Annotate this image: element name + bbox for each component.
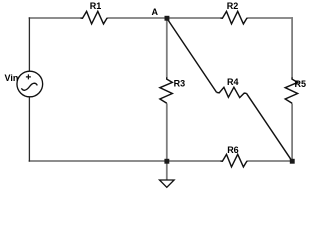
ground xyxy=(160,180,175,187)
wire right vertical upper xyxy=(291,17,293,77)
wire diagonal from node A to R4 xyxy=(167,19,217,93)
resistor R6 xyxy=(220,154,247,167)
svg-text:R4: R4 xyxy=(227,77,239,87)
bottom-right junction dot xyxy=(290,159,295,164)
resistor R1 xyxy=(80,11,107,24)
svg-text:R1: R1 xyxy=(90,1,102,11)
wire right vertical lower xyxy=(291,103,293,161)
source sine wave xyxy=(21,83,37,90)
svg-text:R2: R2 xyxy=(227,1,239,11)
wire top-right segment xyxy=(248,17,293,19)
svg-text:R3: R3 xyxy=(174,78,186,88)
wire ground stem xyxy=(166,161,168,180)
source Vin circle xyxy=(17,71,43,97)
wire left vertical upper (corner to source top) xyxy=(28,17,30,71)
wire diagonal from R4 to bottom-right node xyxy=(246,93,292,161)
svg-text:A: A xyxy=(152,7,159,17)
wire top-middle segment (R1 to R2 through node A) xyxy=(108,17,221,19)
wire top-left segment xyxy=(29,17,81,19)
resistor R2 xyxy=(220,11,247,24)
svg-text:R6: R6 xyxy=(227,145,239,155)
resistor R4 xyxy=(217,87,247,97)
wire bottom-right segment xyxy=(248,160,293,162)
resistor R3 xyxy=(160,77,172,103)
source plus sign xyxy=(26,74,31,79)
svg-text:R5: R5 xyxy=(295,79,307,89)
bottom-center junction dot xyxy=(164,159,169,164)
wire left vertical lower (source bottom to corner) xyxy=(28,97,30,162)
node A junction dot xyxy=(165,16,170,21)
resistor R5 xyxy=(285,77,297,103)
svg-text:Vin: Vin xyxy=(5,73,19,83)
wire R3 bottom to bottom node xyxy=(166,103,168,161)
wire node A to R3 top xyxy=(166,18,168,77)
wire bottom-left segment xyxy=(29,160,221,162)
